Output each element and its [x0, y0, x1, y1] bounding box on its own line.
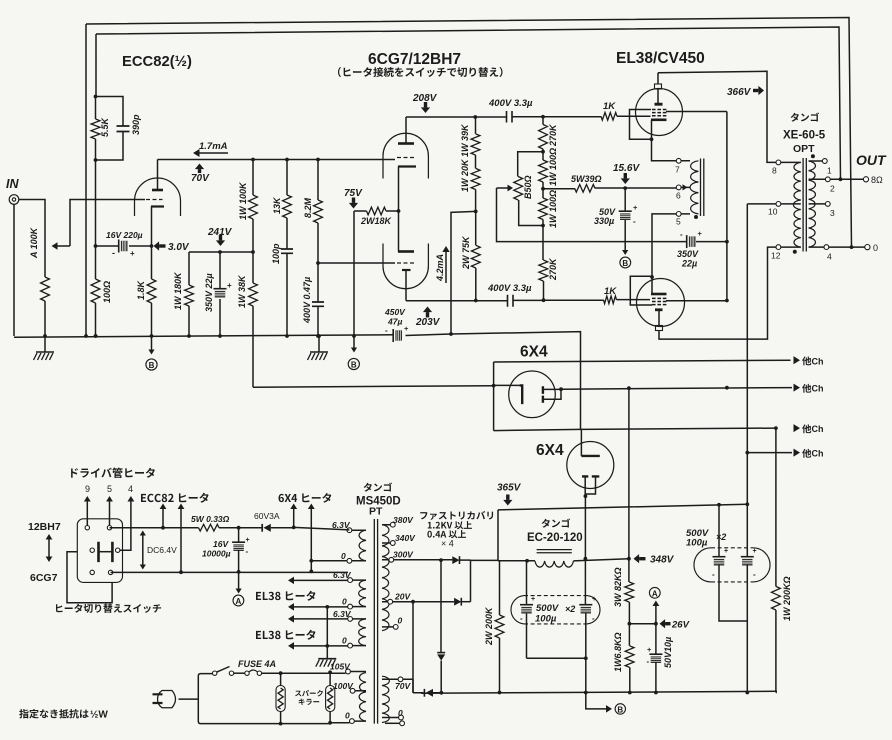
- wire jack to volume pot: [19, 200, 45, 278]
- capacitor 50V330u: [624, 188, 626, 211]
- resistor 5W0.33ohm: [199, 524, 220, 531]
- svg-text:-: -: [246, 547, 249, 556]
- wire 0 output: [829, 246, 865, 248]
- wire EL38 heater w3 6.3V: [294, 618, 348, 620]
- wire 70V tap join: [403, 679, 413, 693]
- 6X4 second plates: [582, 475, 599, 477]
- svg-text:+: +: [404, 324, 409, 333]
- svg-text:FUSE 4A: FUSE 4A: [238, 659, 276, 669]
- svg-text:-: -: [112, 248, 115, 258]
- svg-text:0: 0: [341, 551, 346, 561]
- svg-text:B: B: [622, 259, 628, 268]
- svg-text:47µ: 47µ: [387, 317, 402, 327]
- wire primary bottom: [278, 723, 330, 725]
- wire upper plate to coupling: [406, 116, 506, 118]
- PT tap 300V: [389, 557, 394, 562]
- junction primary top: [279, 671, 283, 675]
- resistor 1W180K: [188, 252, 190, 336]
- label TANGO: [791, 113, 799, 122]
- PT tap 20V: [388, 599, 393, 604]
- input jack IN: [9, 195, 19, 205]
- EL38 lower bottom cap: [656, 326, 663, 331]
- annotation 75V: [349, 203, 358, 209]
- transformer OPT core: [803, 158, 806, 252]
- label 6X4 heater: [279, 494, 284, 502]
- wire wiper to screens node: [497, 188, 687, 242]
- svg-text:6.3V: 6.3V: [333, 609, 352, 619]
- EL38 lower cathode: [651, 293, 667, 296]
- capacitor can 500V100ux2 right: [711, 548, 753, 582]
- svg-text:× 4: × 4: [441, 539, 454, 549]
- PT terminal 0 w1: [347, 558, 352, 563]
- ground bus junctions: [84, 334, 88, 338]
- svg-text:1W 38K: 1W 38K: [237, 274, 247, 308]
- svg-text:300V: 300V: [393, 550, 414, 560]
- node FB top: [94, 95, 98, 99]
- svg-text:70V: 70V: [191, 173, 210, 184]
- node A tag PSU: [655, 604, 657, 624]
- svg-text:2: 2: [830, 184, 835, 194]
- arrow 12BH7-6CG7: [48, 538, 50, 558]
- svg-text:500V: 500V: [536, 603, 559, 614]
- label TANGO PT: [364, 483, 372, 492]
- svg-text:70V: 70V: [395, 681, 411, 691]
- switch power: [213, 671, 217, 675]
- resistor 8.2M: [317, 160, 319, 264]
- svg-text:1: 1: [827, 166, 832, 176]
- wire 20V drop: [412, 602, 414, 693]
- svg-text:100Ω: 100Ω: [102, 281, 112, 303]
- svg-text:A: A: [236, 597, 242, 606]
- fuse FUSE 4A: [245, 671, 249, 675]
- OPT pin 10: [776, 202, 781, 207]
- svg-text:270K: 270K: [548, 257, 558, 281]
- wire 6X4 plates to 348V node: [584, 496, 586, 559]
- wire other-channel 1: [494, 360, 791, 362]
- svg-text:5: 5: [676, 217, 681, 227]
- node B tag left: [151, 336, 153, 351]
- resistor 2W75K: [475, 211, 477, 300]
- resistor 1K lower grid stopper: [544, 299, 651, 302]
- PT terminal 0 w2: [348, 604, 353, 609]
- svg-text:400V 3.3µ: 400V 3.3µ: [487, 283, 532, 294]
- 6CG7 lower grid: [397, 262, 414, 264]
- svg-text:350V 22µ: 350V 22µ: [204, 273, 214, 312]
- PT tap 70V: [398, 677, 403, 682]
- ground symbol under pot: [44, 336, 46, 352]
- wire screens: [666, 112, 727, 301]
- 6X4 first plates: [542, 386, 544, 403]
- PSU ground bus: [421, 691, 777, 693]
- svg-text:-: -: [680, 230, 683, 239]
- node 15.6V: [623, 186, 627, 190]
- OPT pin 2: [825, 177, 830, 182]
- ground symbol at 0.47u: [318, 336, 320, 352]
- OPT pin 12: [776, 245, 781, 250]
- wire EL38 heater w2 6.3V: [294, 579, 348, 581]
- resistor 1W100K plate load: [252, 160, 254, 253]
- wire 18K to B tag: [353, 211, 355, 336]
- svg-text:+: +: [592, 596, 596, 603]
- PT tap 380V: [390, 522, 395, 527]
- PT tap 340V: [390, 541, 395, 546]
- svg-text:6: 6: [676, 191, 681, 201]
- svg-text:0: 0: [398, 708, 403, 718]
- resistor 270K lower: [542, 226, 545, 301]
- svg-text:B: B: [617, 705, 623, 714]
- PT terminal 6.3V w3: [348, 617, 353, 622]
- wire NFB loop outer (0-tap to input stage): [86, 18, 852, 337]
- label driver tube heater: [71, 468, 78, 477]
- wire heater bus upper: [110, 527, 350, 530]
- svg-text:1K: 1K: [604, 286, 617, 297]
- annotation DC6.4V: [142, 534, 144, 566]
- svg-text:12: 12: [771, 251, 781, 261]
- svg-text:3.0V: 3.0V: [168, 242, 190, 253]
- annotation 26V: [660, 619, 666, 628]
- node B50 top: [541, 150, 545, 154]
- svg-text:366V: 366V: [727, 87, 752, 98]
- svg-text:+: +: [633, 203, 638, 212]
- PT terminal 100V: [350, 688, 355, 693]
- svg-text:+: +: [753, 548, 757, 555]
- PT terminal 0 primary: [350, 719, 355, 724]
- switch terminals bottom: [90, 570, 94, 574]
- ground bus B-minus: [14, 335, 394, 337]
- EL38 lower grids: [652, 298, 666, 304]
- svg-text:2W 200K: 2W 200K: [484, 606, 494, 646]
- node B tag PSU: [586, 693, 606, 709]
- svg-text:8.2M: 8.2M: [303, 197, 313, 218]
- svg-text:B: B: [351, 361, 357, 370]
- annotation 203V: [423, 307, 432, 313]
- choke EC-20-120: [537, 550, 572, 553]
- svg-text:20V: 20V: [394, 592, 411, 602]
- wire lower screens row: [666, 300, 727, 302]
- wire 20V tap row: [390, 601, 454, 603]
- OPT pin 8: [776, 160, 781, 165]
- annotation 208V: [421, 107, 430, 113]
- svg-text:75V: 75V: [344, 188, 363, 199]
- svg-text:6CG7: 6CG7: [30, 572, 58, 584]
- OPT primary winding: [793, 162, 800, 247]
- svg-text:6X4: 6X4: [520, 344, 548, 361]
- svg-text:5W39Ω: 5W39Ω: [571, 174, 602, 184]
- svg-text:13K: 13K: [272, 196, 282, 214]
- resistor 1W38K dropper: [252, 252, 254, 387]
- PT heater winding 1: [359, 530, 366, 561]
- wire lower grid row: [318, 262, 395, 264]
- resistor 1W100ohm upper: [542, 152, 544, 189]
- wire lower cathode to terminal 5: [652, 214, 676, 277]
- svg-text:50V10µ: 50V10µ: [663, 637, 673, 668]
- svg-text:+: +: [698, 229, 703, 238]
- svg-text:4: 4: [827, 252, 832, 262]
- wire 8-ohm output: [830, 178, 863, 180]
- PT terminal 6.3V w1: [347, 528, 352, 533]
- wire other-channel 4: [747, 452, 792, 454]
- capacitor 16V10000u: [238, 528, 240, 542]
- resistor 1W200Kohm bleeder right: [775, 428, 777, 586]
- 6X4 first cathode: [494, 384, 520, 386]
- wire OPT CT B+ feed: [747, 204, 776, 504]
- diode D2 fast recovery: [454, 598, 461, 606]
- svg-text:1K: 1K: [603, 101, 616, 112]
- PT terminal 6.3V w2: [348, 578, 353, 583]
- annotation 15.6V: [621, 178, 630, 184]
- wire wiper to grid: [70, 200, 145, 247]
- ECC82 grid: [146, 199, 163, 201]
- svg-text:Ch: Ch: [812, 356, 824, 366]
- annotation 70V: [195, 164, 204, 170]
- wire 6X4 box left: [493, 362, 495, 431]
- wire 6X4 plates drop to can: [584, 559, 586, 605]
- EL38 lower suppressor tie: [630, 276, 652, 305]
- wire plate row 70V: [158, 159, 396, 161]
- ECC82 cathode: [151, 205, 164, 207]
- svg-text:330µ: 330µ: [594, 216, 614, 226]
- switch wrap wire: [67, 552, 112, 603]
- annotation 348V: [634, 554, 640, 563]
- svg-text:Ch: Ch: [812, 384, 824, 394]
- PT heater winding 3: [359, 619, 366, 646]
- svg-text:1W 100K: 1W 100K: [238, 181, 248, 220]
- svg-text:0: 0: [398, 616, 403, 626]
- svg-text:100µ: 100µ: [535, 614, 557, 625]
- resistor 2W200K bleeder: [499, 561, 501, 615]
- transformer PT core: [374, 519, 377, 724]
- svg-text:DC6.4V: DC6.4V: [147, 545, 177, 555]
- PT heater winding 2: [359, 580, 366, 607]
- svg-text:1.7mA: 1.7mA: [199, 141, 228, 152]
- resistor 1W100ohm lower: [542, 189, 544, 226]
- svg-text:EL38/CV450: EL38/CV450: [616, 50, 705, 67]
- svg-text:-: -: [753, 570, 756, 579]
- wire plate to OPT pin8: [658, 71, 776, 162]
- svg-text:8: 8: [772, 166, 777, 176]
- resistor 270K upper: [542, 117, 544, 152]
- capacitor 16V220u cathode bypass: [96, 245, 152, 247]
- EL38 lower plate: [655, 308, 663, 311]
- potentiometer A100K volume: [41, 277, 50, 301]
- svg-text:6CG7/12BH7: 6CG7/12BH7: [368, 51, 461, 68]
- wire 241V node: [189, 251, 253, 253]
- svg-text:208V: 208V: [412, 93, 438, 104]
- node upper grid: [541, 115, 545, 119]
- svg-text:60V3A: 60V3A: [254, 511, 280, 521]
- node B tag mid: [353, 336, 355, 349]
- tube 6CG7 lower envelope: [383, 244, 428, 289]
- annotation 241V: [216, 240, 225, 246]
- diode D4: [413, 692, 441, 694]
- svg-text:450V: 450V: [384, 307, 406, 317]
- svg-text:270K: 270K: [548, 123, 558, 147]
- svg-text:1W 100Ω: 1W 100Ω: [548, 190, 558, 228]
- resistor 1W20K: [475, 190, 477, 212]
- PT tap 0 70V: [399, 715, 404, 720]
- svg-text:ECC82(½): ECC82(½): [122, 54, 192, 70]
- tube 6X4 second envelope: [567, 442, 614, 489]
- svg-text:A: A: [652, 589, 658, 598]
- svg-text:1W 39K: 1W 39K: [460, 123, 470, 157]
- capacitor 390p feedback: [96, 97, 124, 161]
- svg-text:6X4: 6X4: [536, 442, 564, 459]
- heater switch box: [77, 519, 122, 583]
- annotation 1.7mA: [196, 152, 228, 154]
- tube EL38 upper envelope: [636, 89, 683, 136]
- svg-text:-: -: [633, 217, 636, 226]
- svg-text:A 100K: A 100K: [29, 226, 39, 259]
- svg-text:Ch: Ch: [812, 424, 824, 434]
- wire 6X4 box bottom / other-channel 3: [494, 428, 776, 431]
- resistor 2W18K tail: [354, 210, 399, 212]
- ECC82 plate: [152, 189, 163, 192]
- resistor 1.8K cathode: [147, 279, 156, 303]
- wire rail to SRPP loads: [451, 211, 476, 334]
- svg-text:365V: 365V: [497, 483, 522, 494]
- svg-text:-: -: [647, 657, 650, 666]
- PT tap 0 HV: [393, 625, 398, 630]
- svg-text:OUT: OUT: [856, 152, 887, 168]
- svg-text:1W 200KΩ: 1W 200KΩ: [782, 576, 792, 621]
- svg-text:1.8K: 1.8K: [136, 279, 146, 300]
- svg-text:7: 7: [675, 165, 680, 175]
- svg-text:1W 100Ω: 1W 100Ω: [548, 148, 558, 186]
- svg-text:10: 10: [768, 207, 778, 217]
- capacitor 350V22u screen: [686, 235, 688, 248]
- resistor 100ohm FB shunt: [95, 160, 97, 336]
- PT terminal 105V: [346, 669, 351, 674]
- svg-text:5W 0.33Ω: 5W 0.33Ω: [191, 514, 230, 524]
- svg-text:0: 0: [342, 597, 347, 607]
- wire EL38 heater w2 0: [294, 606, 348, 608]
- svg-text:100V: 100V: [333, 681, 354, 691]
- PT terminal 0 w3: [348, 643, 353, 648]
- svg-text:12BH7: 12BH7: [28, 521, 61, 533]
- 6CG7 upper cathode: [398, 165, 416, 167]
- svg-text:22µ: 22µ: [681, 259, 697, 269]
- svg-text:0: 0: [345, 711, 350, 721]
- svg-text:400V 3.3µ: 400V 3.3µ: [488, 98, 533, 109]
- svg-text:0: 0: [342, 636, 347, 646]
- wire B+ rail (right of 47u): [406, 332, 581, 430]
- annotation 3.0V: [153, 245, 155, 247]
- node FB bottom: [94, 158, 98, 162]
- capacitor 50V10u bias: [655, 624, 657, 654]
- wire 365V row: [498, 504, 747, 561]
- svg-text:26V: 26V: [671, 620, 690, 631]
- svg-text:+: +: [130, 249, 135, 258]
- svg-text:100µ: 100µ: [686, 538, 708, 549]
- svg-text:1W 180K: 1W 180K: [173, 271, 183, 310]
- svg-text:390p: 390p: [131, 114, 141, 135]
- capacitor 450V47u rail decoupling: [392, 329, 394, 342]
- wire jack sleeve down: [13, 204, 15, 336]
- svg-text:340V: 340V: [395, 533, 416, 543]
- svg-text:+: +: [246, 537, 250, 544]
- PT primary winding: [359, 673, 366, 722]
- wire pot bottom to ground bus: [44, 301, 46, 336]
- resistor 1W6.8Kohm: [628, 624, 630, 646]
- svg-text:380V: 380V: [393, 515, 414, 525]
- tube EL38 lower envelope: [637, 279, 685, 327]
- potentiometer B50 hum balance: [518, 152, 543, 226]
- node A tag heater: [238, 572, 240, 590]
- svg-text:+: +: [647, 645, 652, 654]
- wire D1 D2 join to choke: [471, 560, 499, 601]
- label heater change switch: [56, 604, 63, 612]
- svg-text:9: 9: [85, 484, 90, 494]
- svg-text:3: 3: [830, 208, 835, 218]
- svg-text:16V 220µ: 16V 220µ: [106, 230, 143, 240]
- capacitor 400V 0.47u: [312, 302, 324, 306]
- wire cathode to terminal 7: [652, 139, 677, 161]
- label resistor note: [19, 709, 28, 718]
- svg-text:6.3V: 6.3V: [333, 570, 352, 580]
- tube ECC82 envelope: [135, 178, 181, 216]
- svg-text:10000µ: 10000µ: [202, 549, 231, 559]
- node B tag 330u: [622, 250, 628, 255]
- svg-text:+: +: [227, 281, 232, 290]
- svg-text:4.2mA: 4.2mA: [435, 254, 445, 282]
- svg-text:-: -: [385, 326, 388, 335]
- diode D1 fast recovery: [452, 556, 459, 564]
- wire lower plate to OPT pin12: [659, 247, 776, 339]
- EL38 upper cathode: [651, 119, 667, 122]
- switch terminals top: [85, 526, 89, 530]
- label EL38 heater 1: [256, 592, 261, 600]
- svg-text:5: 5: [107, 484, 112, 494]
- OPT pin 3: [825, 202, 830, 207]
- svg-text:OPT: OPT: [793, 143, 815, 155]
- PT HV secondary winding: [382, 525, 389, 631]
- annotation 4.2mA: [445, 250, 447, 283]
- svg-text:1W 20K: 1W 20K: [460, 158, 470, 192]
- AC plug: [158, 691, 176, 708]
- wire upper cathode to lower plate: [398, 167, 400, 252]
- wire 348V to other channel riser: [628, 388, 630, 559]
- svg-text:2W 75K: 2W 75K: [461, 235, 471, 270]
- svg-text:B50Ω: B50Ω: [523, 175, 533, 199]
- wire EL38 heater w3 0: [294, 645, 348, 647]
- 6X4 second cathode: [581, 455, 599, 457]
- varistor box: [276, 686, 285, 712]
- resistor 13K: [286, 160, 288, 250]
- resistor 5W39ohm: [543, 187, 676, 190]
- OPT pin 1: [822, 159, 827, 164]
- wire 38K to 6X4 cathode: [253, 386, 494, 388]
- resistor 5.5K feedback: [91, 119, 100, 139]
- svg-text:15.6V: 15.6V: [613, 163, 640, 174]
- svg-text:16V: 16V: [213, 539, 229, 549]
- svg-text:5.5K: 5.5K: [100, 116, 110, 137]
- EL38 upper suppressor tie: [630, 110, 652, 140]
- svg-text:100p: 100p: [271, 243, 281, 264]
- svg-text:×2: ×2: [565, 604, 575, 614]
- capacitor 100p: [281, 249, 293, 253]
- svg-text:Ch: Ch: [812, 449, 824, 459]
- svg-text:EC-20-120: EC-20-120: [527, 532, 583, 544]
- svg-text:½W: ½W: [90, 710, 108, 721]
- wire 300V tap row: [393, 559, 453, 561]
- wire other-channel 2: [561, 388, 792, 390]
- capacitor 400V3.3u lower coupling: [508, 295, 514, 307]
- svg-text:-: -: [520, 614, 523, 623]
- svg-text:B: B: [149, 361, 155, 370]
- svg-text:-: -: [592, 614, 595, 623]
- svg-text:8Ω: 8Ω: [871, 175, 883, 185]
- 6CG7 upper plate: [398, 142, 414, 145]
